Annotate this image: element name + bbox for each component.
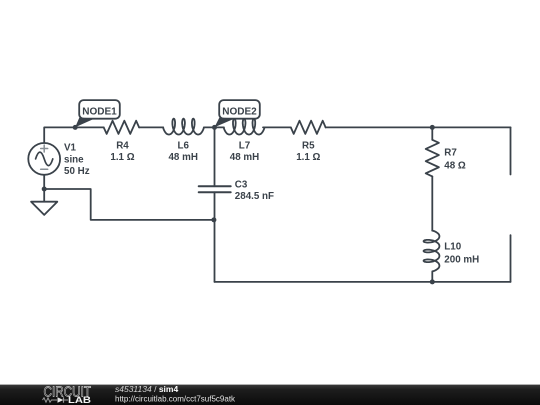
node flag NODE1 box: [79, 100, 120, 119]
junction dot R7 top: [430, 125, 435, 130]
wire L7 to R5: [263, 126, 291, 128]
svg-text:L10: L10: [444, 242, 461, 253]
wire right stub lower: [510, 235, 512, 282]
wire C3 top lead: [214, 127, 216, 186]
svg-text:48 Ω: 48 Ω: [444, 160, 466, 171]
wire junction to L7: [215, 126, 224, 128]
svg-text:R5: R5: [302, 141, 315, 152]
V1 sine wave: [36, 152, 53, 166]
svg-text:R7: R7: [444, 147, 457, 158]
svg-text:L6: L6: [177, 141, 189, 152]
resistor R4: [104, 121, 139, 134]
V1 plus sign: [41, 145, 48, 152]
logo diode triangle: [58, 397, 64, 403]
svg-text:1.1 Ω: 1.1 Ω: [296, 152, 320, 163]
wire R7 to L10: [431, 176, 433, 230]
resistor R5: [291, 121, 326, 134]
svg-text:L7: L7: [239, 141, 251, 152]
svg-text:200 mH: 200 mH: [444, 255, 479, 266]
wire bottom rail: [215, 281, 511, 283]
V1 minus sign: [41, 168, 48, 170]
wire R4 to L6: [139, 126, 163, 128]
svg-text:1.1 Ω: 1.1 Ω: [110, 152, 134, 163]
svg-text:284.5 nF: 284.5 nF: [235, 191, 274, 202]
wire V1 bottom lead: [43, 175, 45, 189]
node flag NODE2 box: [219, 100, 260, 119]
junction dot NODE2: [212, 125, 217, 130]
voltage source V1 circle: [28, 143, 60, 175]
svg-text:R4: R4: [116, 141, 129, 152]
inductor L6: [163, 119, 204, 135]
ground symbol: [31, 202, 57, 215]
capacitor C3 plates: [199, 186, 231, 192]
wire right stub upper: [510, 127, 512, 174]
NODE1 tail: [75, 118, 95, 128]
wire L10 bottom lead: [431, 272, 433, 282]
wire ground to C3 bottom node: [44, 189, 214, 220]
inductor L10: [424, 231, 440, 272]
junction dot V1 bottom: [42, 187, 47, 192]
junction dot L10 bottom: [430, 279, 435, 284]
svg-text:50 Hz: 50 Hz: [64, 166, 90, 177]
wire L6 to NODE2 junction: [205, 126, 215, 128]
junction dot C3 bottom node: [211, 217, 216, 222]
svg-text:48 mH: 48 mH: [230, 152, 259, 163]
svg-text:LAB: LAB: [68, 395, 92, 405]
wire top rail V1 to R4: [44, 127, 103, 143]
wire R7 top lead: [431, 127, 433, 139]
svg-text:sine: sine: [64, 155, 84, 166]
inductor L7: [224, 119, 265, 135]
resistor R7: [426, 140, 439, 177]
svg-text:48 mH: 48 mH: [168, 152, 197, 163]
CircuitLab logo glyph (zigzag + diode): [43, 397, 69, 402]
svg-text:V1: V1: [64, 143, 77, 154]
svg-text:s4531134 / sim4: s4531134 / sim4: [115, 384, 178, 394]
svg-text:NODE2: NODE2: [222, 107, 257, 118]
svg-text:C3: C3: [235, 179, 248, 190]
wire R5 to top-right corner: [326, 126, 511, 128]
svg-text:NODE1: NODE1: [82, 107, 117, 118]
svg-text:http://circuitlab.com/cct7suf5: http://circuitlab.com/cct7suf5c9atk: [115, 395, 236, 404]
wire C3 bottom lead: [214, 192, 216, 282]
wire ground stem: [43, 189, 45, 202]
junction dot NODE1: [73, 125, 78, 130]
NODE2 tail: [215, 118, 236, 128]
